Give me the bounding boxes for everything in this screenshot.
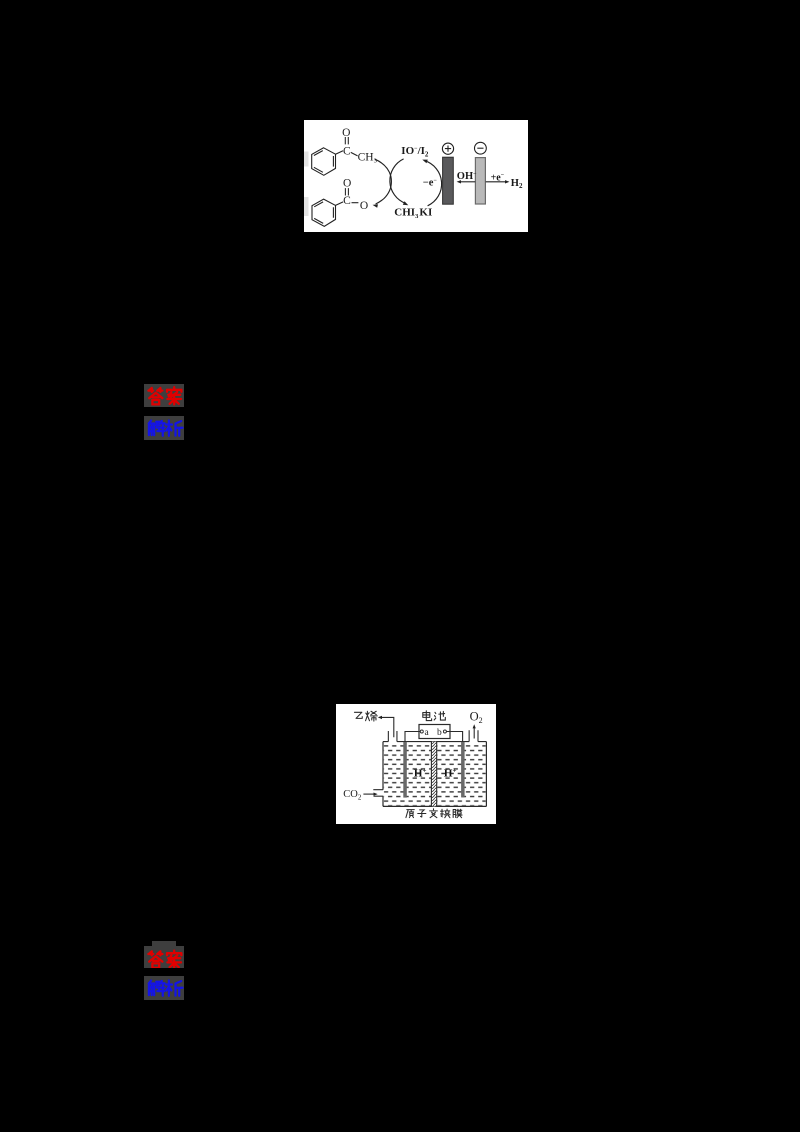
bond C to O (352, 202, 359, 204)
wire a to electrode (405, 732, 420, 743)
bond ring1 to C (336, 151, 344, 155)
cathode bar (light electrode) (475, 158, 485, 204)
CO2 arrow (363, 793, 374, 795)
ethylene outlet tube (388, 731, 397, 742)
diagram box 1: electro-oxidation cycle (304, 120, 528, 232)
CO2 inlet tube (373, 790, 383, 797)
glyph defs (CJK approximations) (0, 0, 1, 1)
membrane caption (质子交换膜) (406, 809, 462, 818)
mediator cycle left arc (390, 159, 406, 204)
svg-text:CHI3KI: CHI3KI (394, 206, 432, 220)
proton exchange membrane (432, 742, 437, 807)
battery box (419, 725, 450, 739)
electrolyte (dashed liquid fill) (384, 744, 486, 805)
ethylene label (乙烯) (354, 711, 377, 721)
O2 outlet tube (469, 730, 478, 741)
answer button 1 (144, 384, 184, 407)
svg-text:CO2: CO2 (343, 789, 362, 801)
substrate curved arrow CH3 to O (375, 159, 392, 204)
tank walls (383, 742, 486, 807)
C=O double bond 1 (345, 137, 348, 144)
svg-text:O: O (342, 127, 350, 139)
plus terminal symbol (442, 143, 453, 154)
battery label (电池) (423, 711, 446, 721)
electrode b bar (461, 742, 465, 798)
svg-text:b: b (437, 728, 442, 738)
C=O double bond 2 (345, 188, 348, 195)
svg-text:O: O (343, 177, 351, 189)
OH- arrow (to anode) (460, 181, 476, 183)
anode bar (dark electrode) (443, 157, 454, 204)
svg-text:IO−/I2: IO−/I2 (401, 145, 429, 159)
terminal b circle (443, 730, 446, 733)
ethylene flow line (381, 717, 394, 737)
electrode a bar (403, 742, 407, 798)
mediator cycle right arc (424, 161, 441, 206)
answer button 2 tab (152, 941, 176, 947)
svg-text:CH3: CH3 (358, 151, 377, 164)
faint left-edge artifact strips (304, 152, 309, 217)
svg-text:C: C (343, 195, 351, 207)
minus terminal symbol (475, 142, 487, 154)
svg-text:C: C (343, 146, 351, 158)
benzene ring 1 (acetophenone) (312, 148, 336, 176)
analysis button 2 (144, 976, 184, 1000)
svg-text:−e−: −e− (423, 177, 438, 188)
svg-text:O2: O2 (470, 710, 483, 726)
bond ring2 to C (336, 202, 344, 206)
benzene ring 2 (benzoate) (312, 199, 336, 226)
analysis button 1 (144, 416, 184, 440)
terminal a circle (420, 730, 423, 733)
svg-text:H2: H2 (511, 178, 523, 190)
O2 flow arrow (473, 727, 475, 739)
wire b to electrode (446, 732, 462, 743)
svg-text:O: O (360, 200, 368, 212)
bond C to CH3 (351, 152, 358, 156)
diagram box 2: CO2 electrolysis cell (336, 704, 496, 824)
answer button 2 (144, 946, 184, 968)
electron arrow to H2 (486, 181, 506, 183)
